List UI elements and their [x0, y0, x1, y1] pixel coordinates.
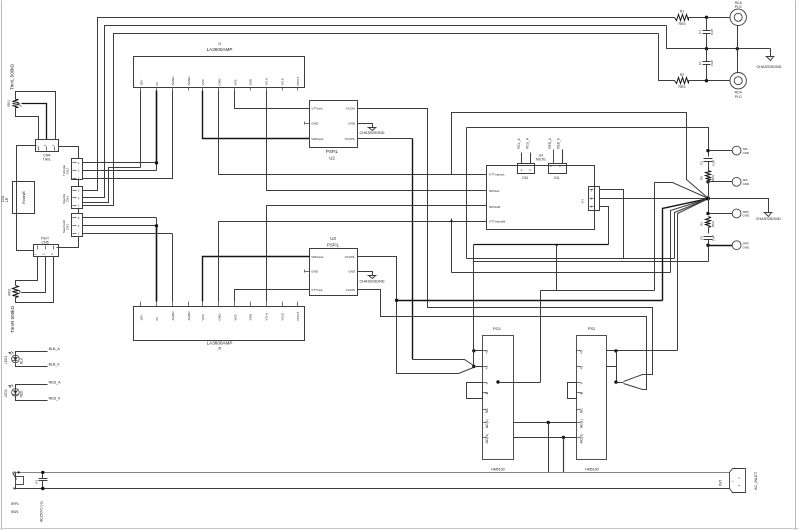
label CN3 — [62, 194, 70, 204]
svg-text:AGND: AGND — [171, 311, 175, 321]
label HM5190 PS2 — [585, 467, 599, 471]
svg-text:TrimL: TrimL — [43, 157, 51, 161]
wire CN5 pin2 to RV2 wiper — [22, 257, 46, 293]
junction TP3 — [706, 212, 709, 215]
svg-text:C6: C6 — [700, 236, 704, 240]
junction PS2 pin1 — [614, 349, 617, 352]
label TP3 — [743, 210, 751, 218]
svg-text:C: C — [559, 165, 561, 168]
label TP1 — [743, 147, 751, 155]
wire TP column bottom — [708, 246, 710, 262]
svg-text:R5: R5 — [700, 176, 704, 180]
wire CN5 pin1 to RV2 top — [16, 257, 38, 286]
U2 GND stub — [305, 122, 310, 125]
wire fan to chassis — [709, 199, 769, 213]
conn spine 3 to CN5 — [57, 237, 79, 248]
wire PG1 pin1 — [474, 350, 483, 352]
svg-text:CAP: CAP — [710, 29, 714, 35]
connector CN4 body — [36, 140, 59, 152]
svg-text:BLB_K: BLB_K — [49, 362, 61, 366]
junction fan node — [706, 196, 710, 200]
svg-text:MUTE: MUTE — [536, 158, 546, 162]
wire PG1 V net — [499, 382, 541, 384]
label RV1 — [7, 100, 11, 107]
rca jack J1 — [730, 9, 746, 25]
junction PG1 pin1 — [472, 349, 475, 352]
svg-text:C4: C4 — [581, 199, 585, 203]
wire Htop2 to TP column — [467, 128, 709, 151]
svg-text:R2: R2 — [680, 73, 684, 77]
wire U3 GND to chassis — [358, 272, 373, 276]
wire TP column top — [708, 151, 710, 157]
label RotaryB — [22, 191, 26, 204]
wire U5 VCC to U3 — [203, 257, 310, 302]
label C6 — [700, 235, 716, 241]
svg-text:C2: C2 — [698, 61, 702, 65]
funnel PS2 — [617, 382, 624, 384]
wire TP2 — [709, 181, 733, 183]
wire C4R pin3 down — [600, 190, 624, 259]
svg-text:CN2: CN2 — [66, 168, 70, 174]
svg-text:VEE: VEE — [233, 314, 237, 320]
svg-text:JW3: JW3 — [719, 480, 723, 487]
label PS2 — [588, 326, 596, 331]
svg-text:SND: SND — [249, 313, 253, 320]
wire U1 AGND to CN2 pin1 — [83, 91, 173, 179]
label JW3 — [719, 480, 723, 487]
wire LED2 cathode — [16, 397, 48, 401]
U3 GND stub — [305, 270, 310, 273]
svg-text:POUT: POUT — [296, 312, 300, 321]
frame bottom border — [1, 528, 799, 530]
wire bus L3 — [83, 168, 141, 203]
label R5 — [700, 175, 716, 181]
resistor R6 — [706, 217, 711, 228]
U5 pins — [140, 302, 300, 321]
label CN5 — [41, 237, 50, 245]
wire U1 GND to VTTmainxL — [219, 91, 487, 175]
frame right border — [795, 1, 797, 530]
resistor R2 — [675, 78, 689, 84]
svg-text:TrimR 500kΩ: TrimR 500kΩ — [10, 305, 15, 333]
svg-text:RED_A: RED_A — [548, 137, 552, 149]
svg-text:RCL_A: RCL_A — [517, 138, 521, 149]
chassis ground fan — [764, 213, 773, 217]
chassis ground U3 — [368, 276, 377, 279]
testpoint TP2 — [732, 177, 741, 186]
wire SPOutL corner up — [466, 128, 468, 191]
wire rca1 shell — [737, 26, 739, 49]
capacitor C6 — [704, 228, 713, 246]
junction C2 bottom — [705, 79, 708, 82]
svg-text:LA3600AMP: LA3600AMP — [207, 341, 233, 346]
svg-text:VCCHi: VCCHi — [346, 288, 356, 292]
svg-text:PS2: PS2 — [588, 326, 596, 331]
svg-text:GND: GND — [218, 313, 222, 321]
label PG1 — [493, 326, 502, 331]
chassis ground U2 — [368, 128, 377, 131]
svg-text:LR: LR — [5, 197, 9, 202]
svg-text:CN5: CN5 — [41, 240, 48, 244]
label rca J1 — [735, 1, 743, 9]
svg-text:RCU_A: RCU_A — [526, 137, 530, 149]
label LED2 — [4, 389, 24, 397]
led LED2 — [9, 385, 20, 397]
PS2 aux box — [568, 383, 577, 399]
conn spine 2-3 — [78, 209, 80, 214]
label C5 — [700, 160, 716, 166]
svg-text:AGND: AGND — [171, 76, 175, 86]
svg-text:+5: +5 — [579, 350, 583, 354]
label CN4 — [43, 153, 51, 161]
svg-text:PG1: PG1 — [493, 326, 502, 331]
PS2 pins — [577, 350, 584, 443]
label AC_INLET — [754, 471, 758, 490]
svg-text:VDDoutL: VDDoutL — [311, 137, 324, 141]
wire fan riser 677 — [678, 199, 709, 351]
conn spine 1-2 — [78, 180, 80, 187]
resistor R5 — [706, 171, 711, 181]
CN4 pin ticks — [35, 144, 55, 150]
junction TP4 — [706, 244, 709, 247]
svg-text:D10: D10 — [522, 176, 528, 180]
svg-text:VDDoutL: VDDoutL — [311, 255, 324, 259]
wire row167 — [109, 167, 141, 169]
label CN6 — [62, 219, 70, 233]
svg-text:SPOutR: SPOutR — [489, 205, 501, 209]
junction U3 bold branch — [395, 299, 398, 302]
wire C4R pin2 to fan — [600, 198, 709, 200]
svg-text:VCCHL: VCCHL — [345, 255, 356, 259]
D11 pins — [550, 150, 562, 168]
svg-text:VTTmnL: VTTmnL — [311, 288, 323, 292]
net label RED_A — [49, 381, 62, 385]
op-amp U5 box — [134, 307, 305, 341]
svg-text:HM5190: HM5190 — [491, 467, 505, 471]
svg-text:RES: RES — [679, 22, 687, 26]
C4R pin ticks — [590, 188, 594, 208]
potentiometer RV2 — [13, 286, 22, 298]
svg-text:+5: +5 — [485, 350, 489, 354]
U3 pin labels — [311, 255, 356, 292]
junction ACL — [547, 421, 550, 424]
svg-text:GND: GND — [348, 270, 356, 274]
wire TP3 — [709, 213, 733, 215]
svg-text:+5: +5 — [579, 366, 583, 370]
label R2 — [679, 73, 687, 89]
svg-text:CHASSISGND: CHASSISGND — [756, 217, 781, 221]
svg-text:NC: NC — [485, 408, 489, 413]
wire PG1 ACN — [514, 437, 577, 439]
svg-text:VEE: VEE — [233, 79, 237, 85]
svg-text:VO.E: VO.E — [281, 313, 285, 320]
svg-text:RED_A: RED_A — [49, 381, 62, 385]
svg-text:VTTmnL: VTTmnL — [311, 107, 323, 111]
wire LED2 anode — [16, 385, 48, 389]
svg-text:GND: GND — [311, 270, 319, 274]
svg-text:C9: C9 — [35, 480, 39, 484]
label D10 — [522, 176, 528, 180]
wire U3 VCCHL to PG1 funnel — [358, 257, 474, 374]
net label RED_K — [557, 137, 561, 149]
svg-text:PLG: PLG — [735, 5, 742, 9]
wire row261 to TP chain — [474, 261, 709, 263]
svg-text:POUT: POUT — [296, 77, 300, 86]
wire CN5 pin3 to RV2 bottom — [16, 257, 54, 303]
net label RCU_A — [526, 137, 530, 149]
label chassisgnd top — [756, 65, 781, 69]
svg-text:RES: RES — [679, 85, 687, 89]
label LED1 — [4, 356, 24, 364]
label CN1 LR — [1, 195, 9, 202]
svg-text:+5: +5 — [485, 366, 489, 370]
rca jack J2 — [730, 73, 746, 89]
svg-text:1BV: 1BV — [140, 79, 144, 86]
svg-text:PSFIL: PSFIL — [326, 149, 339, 154]
svg-text:CN1: CN1 — [66, 224, 70, 230]
svg-text:IN: IN — [155, 82, 159, 85]
svg-text:GND: GND — [743, 245, 751, 249]
U1 pins — [140, 76, 300, 91]
svg-text:RV2: RV2 — [7, 289, 11, 296]
svg-text:R6: R6 — [700, 222, 704, 226]
svg-text:GND: GND — [743, 214, 751, 218]
junction TP2 — [706, 180, 709, 183]
wire bus L2 — [83, 26, 667, 198]
connector CN3 body — [72, 187, 83, 209]
connector CN6 body — [72, 214, 83, 237]
svg-text:VO.H: VO.H — [265, 78, 269, 86]
svg-text:TrimL 500kΩ: TrimL 500kΩ — [9, 63, 14, 90]
op-amp U1 box — [134, 57, 305, 88]
label C4R — [581, 199, 585, 203]
svg-text:VCC: VCC — [201, 78, 205, 85]
trimmer label TrimR — [10, 305, 15, 333]
switch box SW — [487, 166, 595, 230]
svg-text:VTTmainxB: VTTmainxB — [489, 220, 505, 224]
testpoint TP1 — [732, 146, 741, 155]
junction sw top — [18, 471, 20, 473]
testpoint TP3 — [732, 209, 741, 218]
svg-text:CHASSISGND: CHASSISGND — [359, 131, 384, 135]
svg-text:GND: GND — [743, 151, 751, 155]
svg-text:GND: GND — [743, 182, 751, 186]
filter U2 box — [310, 101, 358, 148]
connector CN2 body — [72, 159, 83, 180]
wire PG1 V riser — [540, 291, 542, 383]
svg-text:BLB_A: BLB_A — [49, 347, 61, 351]
wire PS2 pin2 — [607, 366, 617, 368]
label U1 — [207, 42, 233, 52]
CN2 pin ticks — [73, 161, 80, 180]
svg-text:PLG: PLG — [735, 95, 742, 99]
svg-text:C5: C5 — [700, 161, 704, 165]
svg-text:AC_INLET: AC_INLET — [754, 471, 758, 490]
wire PG1 funnel stem — [473, 351, 475, 367]
label R6 — [700, 221, 716, 227]
junction PS2 funnel — [614, 380, 617, 383]
svg-text:RES: RES — [711, 175, 715, 181]
label chassisgnd U3 — [359, 279, 384, 283]
wire TP2 to fan — [708, 182, 710, 199]
wire RV1 bottom to CN4 pin1 — [16, 108, 39, 140]
junction C9 bottom — [41, 487, 44, 490]
SW pin labels — [489, 173, 505, 224]
label TP2 — [743, 178, 751, 186]
junction TP1 — [706, 149, 709, 152]
label C9 value — [40, 501, 44, 522]
wire U1 IN to CN2 — [83, 91, 157, 171]
wire U1 pin1 down — [140, 91, 142, 168]
wire U5 VEE to U3 — [235, 290, 310, 302]
wire PG1 pin2 — [474, 366, 483, 368]
wire bus L1 — [83, 18, 675, 191]
junction C9 top — [41, 471, 44, 474]
power module PG1 box — [483, 336, 514, 460]
wire PG1 ACL — [514, 422, 577, 424]
wire U1 VCC to U2 — [203, 91, 310, 139]
net label RCL_A — [517, 138, 521, 149]
wire fan to TP3 — [708, 199, 710, 214]
wire U2 GND to chassis — [358, 124, 373, 128]
junction rca shell — [736, 47, 739, 50]
wire U2 VCCHL to PG1 funnel — [358, 139, 474, 366]
label U3 — [327, 236, 340, 247]
svg-text:U2: U2 — [329, 156, 335, 161]
wire U1 VEE to U2 — [235, 91, 310, 109]
wire R1 to RCA1 — [689, 17, 730, 19]
filter U3 box — [310, 249, 358, 296]
label U2 — [326, 149, 339, 161]
wire bold row300 — [397, 300, 663, 302]
svg-text:PSFIL: PSFIL — [327, 242, 340, 247]
svg-text:HM5190: HM5190 — [585, 467, 599, 471]
wire U5 VOH to SPOutR — [267, 206, 487, 302]
label CN2 — [62, 165, 70, 176]
wire L4 to R2 — [659, 34, 675, 81]
power module PS2 box — [577, 336, 607, 460]
wire CN6 to U5 IN — [83, 218, 157, 302]
capacitor C9 x-cap — [39, 473, 48, 489]
label chassisgnd U2 — [359, 131, 384, 135]
net label RED_A — [548, 137, 552, 149]
wire R2 to RCA2 — [689, 80, 730, 82]
svg-text:C: C — [529, 169, 531, 172]
junction U5 IN — [155, 224, 158, 227]
CN3 pin ticks — [73, 189, 80, 208]
svg-text:GND: GND — [218, 78, 222, 86]
svg-text:CHASSISGND: CHASSISGND — [359, 279, 384, 283]
wire fan riser 674 — [675, 199, 709, 259]
svg-text:RotaryB: RotaryB — [22, 191, 26, 204]
label HM5190 PG1 — [491, 467, 505, 471]
wire ACL down — [548, 423, 550, 473]
label C1 — [698, 29, 714, 35]
junction U1 IN — [155, 161, 158, 164]
chassis ground top — [766, 57, 775, 61]
label U5 — [207, 341, 233, 351]
wire Htop1 — [452, 113, 709, 199]
wire TP4 — [709, 245, 733, 247]
svg-text:AC(N): AC(N) — [579, 434, 583, 443]
label TP4 — [743, 242, 751, 250]
mute box D10 — [518, 164, 535, 174]
wire U5 GND to VTTmainxB — [219, 222, 487, 302]
svg-text:C1: C1 — [698, 30, 702, 34]
wire bus L4 — [83, 34, 659, 206]
svg-text:VO.H: VO.H — [265, 313, 269, 321]
label rca J2 — [735, 91, 743, 99]
wire RV1 wiper to CN4 pin2 — [22, 104, 47, 140]
svg-text:RES: RES — [711, 221, 715, 227]
PG1 aux box — [467, 383, 483, 399]
wire row258 — [467, 191, 675, 259]
svg-text:AC(L): AC(L) — [485, 419, 489, 428]
svg-text:J5: J5 — [218, 347, 222, 351]
label D11 — [554, 176, 560, 180]
D10 pins — [521, 153, 532, 173]
svg-text:RV1: RV1 — [7, 100, 11, 107]
junction PG1 V pin — [496, 380, 499, 383]
label C9 — [35, 480, 39, 484]
wire PG1 riser — [473, 245, 475, 351]
svg-text:R1: R1 — [680, 10, 684, 14]
wire C4R pin1 down — [474, 207, 609, 245]
resistor R1 — [675, 15, 689, 21]
svg-text:CHASSISGND: CHASSISGND — [756, 65, 781, 69]
svg-text:LA3600AMP: LA3600AMP — [207, 47, 233, 52]
svg-text:NC: NC — [579, 408, 583, 413]
svg-text:GND: GND — [311, 122, 319, 126]
svg-text:AGND: AGND — [187, 311, 191, 321]
svg-text:RED_K: RED_K — [557, 137, 561, 149]
svg-text:1BV: 1BV — [140, 314, 144, 321]
wire row272 — [452, 219, 671, 273]
wire ACN down — [563, 438, 565, 473]
svg-text:RED: RED — [20, 390, 24, 397]
svg-text:CN3: CN3 — [66, 196, 70, 202]
CN6 pin ticks — [73, 216, 80, 235]
capacitor C1 — [703, 18, 711, 49]
svg-text:CAP: CAP — [710, 60, 714, 66]
wire LED1 anode — [16, 352, 48, 355]
junction C1 top — [705, 16, 708, 19]
wire fan riser 670 — [671, 199, 709, 273]
wire CN4 right to conn spine — [59, 147, 79, 159]
svg-text:SPOutL: SPOutL — [489, 189, 500, 193]
svg-text:BLU: BLU — [20, 357, 24, 364]
led LED1 — [9, 352, 20, 363]
wire CN6 pin1 to U5 AGND — [83, 234, 173, 302]
trimmer label TrimL — [9, 63, 14, 90]
wire TP1 — [709, 150, 733, 152]
wire U2 VCCHi to PS2 funnel — [358, 109, 653, 382]
svg-text:AC250V0.01u: AC250V0.01u — [40, 501, 44, 522]
wire to chassis top — [770, 49, 772, 57]
potentiometer RV1 — [13, 100, 22, 108]
svg-text:VCCHi: VCCHi — [346, 107, 356, 111]
svg-text:VO.E: VO.E — [281, 78, 285, 85]
svg-text:AGND: AGND — [187, 76, 191, 86]
junction ACN — [562, 436, 565, 439]
CN5 pin ticks — [34, 246, 54, 255]
mute box D11 — [549, 164, 567, 174]
capacitor C2 — [703, 49, 711, 81]
wire fan riser 662 — [663, 199, 709, 301]
label RV2 — [7, 289, 11, 296]
U2 pin labels — [311, 107, 356, 142]
svg-text:SW1: SW1 — [11, 510, 19, 514]
